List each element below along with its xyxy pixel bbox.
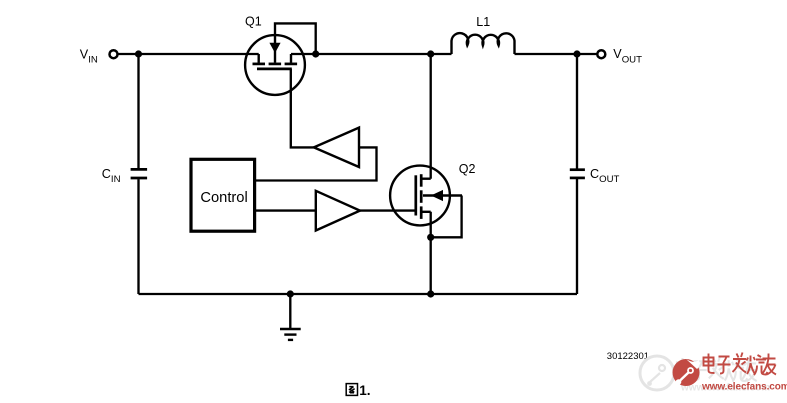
watermark embossed CJK echo [677,357,757,382]
wire left input drop upper [137,54,139,168]
wire Q1 bulk loop [275,23,316,54]
wire left input drop lower [137,179,139,294]
wire Q1 gate lead [291,69,314,147]
ground [280,329,301,340]
svg-text:30122301: 30122301 [607,351,649,362]
wire control to buffer2 [255,209,316,211]
wire bottom rail [139,293,578,295]
wire ground stub [289,294,291,328]
svg-text:COUT: COUT [590,167,620,185]
svg-text:Control: Control [200,190,247,206]
svg-text:www.elecfans.com: www.elecfans.com [701,382,787,393]
node junction ground tap [287,290,294,297]
svg-text:1.: 1. [359,383,370,398]
wire right output drop upper [576,54,578,169]
svg-text:VOUT: VOUT [613,47,642,65]
node junction Vout top [573,50,580,57]
Control block U1 [191,159,255,231]
node junction Q2 source-bulk [427,234,434,241]
inductor L1 [452,33,515,54]
transistor Q1 bulk arrowhead [269,43,280,53]
watermark elecfans logo (red) [673,359,700,386]
op-amp buffer A2 (gate driver Q2, points right) [316,191,360,231]
wire buffer2 to Q2 gate [360,209,416,211]
node junction VIN [135,50,142,57]
wire switch node drop [430,54,432,179]
watermark text 电子发烧友 (red) [704,353,777,376]
wire top rail right of Q1 [291,53,452,55]
terminal VIN circle [110,50,118,58]
svg-text:Q2: Q2 [459,162,476,176]
svg-text:L1: L1 [476,15,490,29]
wire right output drop lower [576,179,578,294]
svg-text:Q1: Q1 [245,14,262,28]
wire top rail left segment [118,53,259,55]
node junction Q1 bulk to drain [312,50,319,57]
watermark embossed (white stamp shadow) [640,356,674,390]
terminal VOUT circle [597,50,605,58]
capacitor CIN [131,169,148,178]
wire Q2 bulk loop [431,196,462,238]
svg-text:VIN: VIN [80,47,98,65]
caption 图1. [346,384,357,396]
transistor Q1 [245,35,305,95]
wire Q2 source to rail [430,212,432,294]
svg-text:CIN: CIN [102,167,121,185]
wire top rail after L1 to Vout [515,53,598,55]
transistor Q2 [390,166,462,226]
transistor Q2 bulk arrowhead [431,190,443,201]
capacitor COUT [570,170,585,178]
node junction Q2 to rail [427,290,434,297]
op-amp buffer A1 (gate driver Q1, points left) [314,128,359,167]
wire buffer1 input path [255,147,377,180]
node junction switch node [427,50,434,57]
